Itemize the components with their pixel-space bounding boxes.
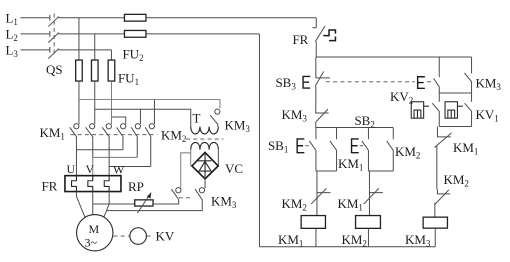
wire phase1 fuse to contact [78,81,80,124]
svg-text:KM2: KM2 [161,127,186,144]
speed relay KV2 contact [432,93,439,127]
pushbutton SB3 stop NC [315,57,330,103]
shaft dashes motor to KV [113,235,129,237]
svg-text:KM3: KM3 [281,107,307,124]
wire line E contact6 to W [109,166,151,175]
svg-text:RP: RP [128,179,144,194]
wire line A L1 to transformer [79,99,220,108]
switch QS pole 1 [48,15,59,27]
motor lead U [76,192,85,218]
svg-text:L2: L2 [5,26,17,43]
coil KM2 [356,216,381,229]
fuse FU1 pole1 [76,60,83,81]
thermal relay FR contact [312,18,325,57]
wire phase3 drop [110,50,112,60]
contactor KM1 main contact 2 [86,124,95,158]
wire L1 fuse to control [146,17,316,19]
wire brake branch top [438,57,440,77]
pushbutton SB2 start NO [362,127,369,171]
svg-text:KM1: KM1 [337,196,362,213]
svg-text:VC: VC [225,161,243,176]
contactor KM1 main contact 3 [102,124,111,167]
wire contact6 feed [153,99,155,124]
wire L1 to switch [20,17,50,19]
wire secondary left to KM3a [181,150,191,189]
svg-text:U: U [66,162,75,176]
wire coil3 to bus [434,228,436,247]
wire phase2 drop [94,34,96,60]
wire left rail [258,34,260,247]
motor lead W [104,192,109,217]
wire bottom bus [259,246,435,248]
wire node2 [439,125,471,127]
linkage dashes KM3 brake [179,197,194,199]
wire top bus [316,56,471,58]
transformer T secondary winding [191,142,219,149]
motor lead V [92,192,94,215]
svg-text:3~: 3~ [84,235,97,249]
contactor KM2 NC interlock branch1 [311,171,330,216]
contactor KM1 NC interlock branch2 [364,171,383,216]
speed relay KV1 contact [465,93,472,127]
wire branch1 join [316,170,337,172]
wire line C contact4 to U [76,150,123,176]
switch QS pole 3 [48,47,59,59]
svg-text:KM3: KM3 [405,232,431,249]
svg-text:KM2: KM2 [395,144,420,161]
contactor KM3 NC interlock [316,103,329,127]
fuse FU2 upper [124,14,146,21]
FR heater element 2 [88,176,93,192]
wire contact5 feed [139,109,141,124]
contactor KM1 NC interlock brake [434,126,451,189]
contactor KM2 NC interlock brake [435,189,450,217]
KV2 device box [411,102,429,118]
SB3 actuator E [303,76,310,88]
contactor KM1 main contact 1 [70,124,79,150]
wire right rail top [471,57,473,73]
wire contact4 jog from phase3 [111,117,125,124]
wire branch2 join [368,170,393,172]
FR heater element 3 [104,176,109,192]
svg-text:QS: QS [46,62,63,77]
svg-text:FR: FR [292,32,308,47]
SB1 actuator E [297,139,304,153]
svg-text:FR: FR [41,178,57,193]
svg-text:W: W [113,162,125,176]
wire line D contact5 to V [93,157,138,175]
linkage dashes SB3 to brake branch [326,81,432,83]
svg-text:L3: L3 [5,42,18,59]
rectifier VC diode [197,154,211,177]
wire L2 to switch [20,33,50,35]
svg-text:KM2: KM2 [281,196,306,213]
svg-text:T: T [192,110,200,125]
contactor KM3 NO self-hold [464,73,471,93]
FR thermal release symbol [323,30,335,41]
resistor RP box [135,200,153,206]
contactor KM2 aux NO hold [387,127,394,171]
svg-text:FU2: FU2 [122,46,143,63]
wire coil2 to bus [367,228,369,246]
FR heater element 1 [72,176,77,192]
wire phase2 fuse to contact [94,81,96,124]
svg-text:KM3: KM3 [475,75,501,92]
fuse FU1 pole3 [108,60,115,81]
speed relay KV circle [130,228,147,245]
wire L1 after switch [58,17,124,19]
resistor RP arrow [137,195,149,213]
transformer core dashes [186,138,224,140]
contactor KM2 main contact 4 [117,124,126,150]
wire line B L2 to transformer [95,109,191,126]
wire phase3 fuse to contact [110,81,112,124]
wire node1 [439,92,471,94]
svg-text:KV2: KV2 [390,89,413,106]
coil KM3 [423,217,447,228]
svg-text:FU1: FU1 [118,70,139,87]
svg-text:SB1: SB1 [268,138,288,155]
svg-text:M: M [88,222,99,236]
fuse FU1 pole2 [91,60,98,81]
svg-text:V: V [85,162,94,176]
svg-text:KV: KV [155,228,174,243]
svg-text:KM1: KM1 [278,232,303,249]
svg-text:KV1: KV1 [475,107,498,124]
contactor KM3 contact at transformer [210,109,220,126]
contactor KM3 brake contact a [171,188,181,200]
SB3 brake actuator E [418,77,425,89]
wire L2 after switch [58,33,124,35]
svg-text:KM3: KM3 [211,193,237,210]
svg-text:KM1: KM1 [338,156,363,173]
svg-text:SB2: SB2 [354,113,374,130]
wire Q W to KM3 contact [107,201,202,211]
svg-text:KM2: KM2 [443,172,468,189]
switch QS pole 2 [48,31,59,43]
coil KM1 [301,216,325,229]
wire P RP to KM3 contact [153,200,179,204]
svg-text:KM1: KM1 [453,140,478,157]
rectifier VC diamond [192,152,218,178]
fuse FU2 lower [124,30,146,37]
KV1 device box [445,102,463,118]
svg-text:KM2: KM2 [341,232,366,249]
svg-text:L1: L1 [5,10,17,27]
svg-text:SB3: SB3 [275,75,296,92]
pushbutton SB3 NO brake contact [434,78,440,93]
dash KV to label [147,235,154,237]
switch QS linkage [53,13,55,55]
pushbutton SB1 start NO [309,127,316,171]
motor M circle [77,215,113,251]
wire node line start branches [316,126,393,128]
dash SB2 link [360,145,363,147]
wire phase1 drop [78,18,80,60]
linkage dashes main contacts [70,134,157,136]
wire L3 after switch [58,49,111,51]
wire P V to RP [93,203,135,205]
contactor KM2 main contact 6 [145,124,154,167]
thermal relay FR box [65,176,121,192]
svg-text:KM1: KM1 [39,125,64,142]
contactor KM1 aux NO hold [330,127,337,171]
wire coil1 to bus [315,228,317,246]
wire L3 to switch [20,49,50,51]
svg-text:KM3: KM3 [224,117,250,134]
contactor KM3 brake contact b [195,188,205,201]
dash SB1 link [305,145,308,147]
transformer T primary winding [191,126,219,134]
contactor KM2 main contact 5 [131,124,140,158]
wire secondary right to rectifier [217,150,219,166]
wire L2 fuse to left rail [146,33,260,35]
SB2 actuator E [352,139,359,153]
wire rectifier bottom to KM3b [204,179,206,189]
